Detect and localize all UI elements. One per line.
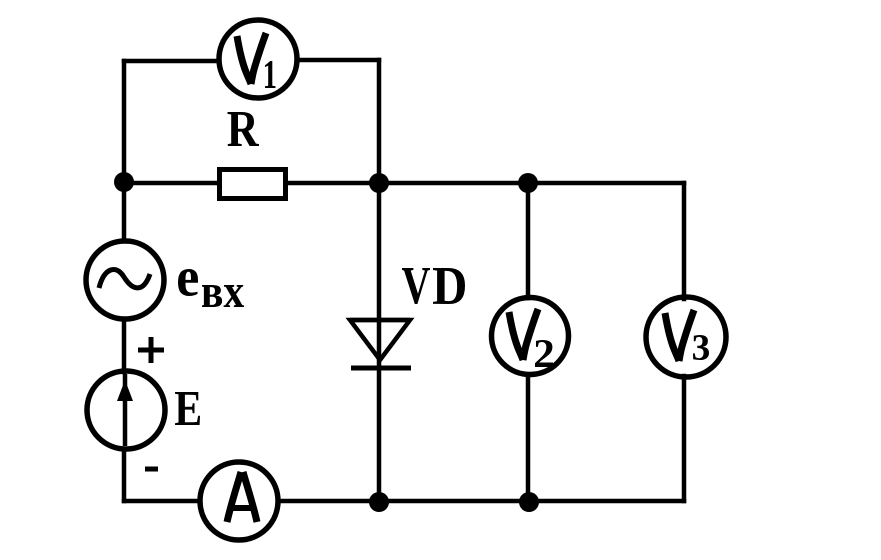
wire diode branch [377, 183, 382, 501]
ammeter A [200, 462, 278, 540]
wire between sources [122, 320, 127, 372]
resistor R [220, 170, 286, 199]
diode VD [350, 320, 411, 368]
wire V2 branch bottom [526, 375, 531, 501]
wire V3 branch bottom [682, 376, 687, 501]
wire main horizontal row left of R [124, 181, 219, 186]
wire top horizontal left of V1 [124, 59, 218, 64]
label R [228, 112, 260, 146]
label e_vx [178, 269, 244, 307]
wire V2 branch top [526, 183, 531, 298]
wire E source to bottom corner [122, 449, 127, 501]
wire diode bottom to V2 bottom [379, 499, 528, 504]
node dot V2 bottom [519, 492, 539, 512]
wire ammeter to diode bottom node [279, 499, 379, 504]
node dot diode top [369, 173, 389, 193]
source e_vx (sine) [86, 241, 164, 319]
wire diode node to V2 node [379, 181, 528, 186]
wire R to diode node [287, 181, 379, 186]
wire top horizontal right of V1 [298, 58, 379, 63]
wire V2 node to right corner [528, 181, 684, 186]
node dot diode bottom [369, 492, 389, 512]
label VD [402, 268, 430, 304]
plus sign [138, 337, 164, 363]
node dot left R [114, 172, 134, 192]
voltmeter V1 [219, 20, 297, 98]
label E [175, 392, 200, 425]
wire bottom left to ammeter [124, 499, 200, 504]
wire V3 branch top [682, 183, 687, 299]
voltmeter V2 [492, 298, 569, 375]
wire V2 bottom to right bottom corner [528, 499, 684, 504]
wire top-left rail segment [122, 61, 127, 183]
voltmeter V3 [646, 297, 726, 377]
source E (DC with arrow) [87, 371, 165, 449]
minus sign [145, 467, 158, 472]
node dot V2 top [518, 173, 538, 193]
wire right rail of V1 loop [377, 60, 382, 183]
wire left rail sine-to-plus [122, 183, 127, 241]
